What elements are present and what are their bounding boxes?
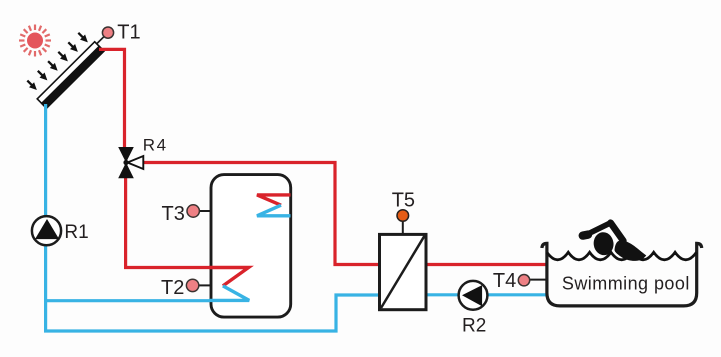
svg-text:R4: R4 bbox=[143, 136, 168, 155]
svg-text:T5: T5 bbox=[392, 190, 415, 212]
valve R4 bbox=[118, 147, 143, 178]
pool water wave line bbox=[547, 252, 697, 259]
wire: tank coil return to pump line bbox=[44, 299, 214, 302]
wire: hot supply collector to valve bbox=[99, 49, 125, 150]
swimming pool tub bbox=[542, 243, 702, 306]
wire: heat exchanger to pool (cold) through R2 bbox=[426, 293, 546, 296]
svg-text:R1: R1 bbox=[64, 222, 88, 243]
wire: valve bottom branch to tank coil bbox=[126, 175, 214, 268]
sensor T5 bbox=[397, 210, 409, 233]
heat exchanger bbox=[380, 234, 427, 309]
wire: heat exchanger to pool (hot) bbox=[426, 263, 546, 266]
sensor T2 bbox=[186, 279, 212, 291]
wire: valve right branch to heat exchanger bbox=[143, 163, 380, 265]
solar collector panel bbox=[37, 41, 105, 109]
svg-text:T4: T4 bbox=[493, 270, 516, 292]
svg-text:T3: T3 bbox=[162, 203, 185, 225]
sensor T1 bbox=[97, 27, 114, 44]
sensor T4 bbox=[518, 275, 547, 286]
wire: collector return (blue) down left side bbox=[46, 104, 379, 331]
pump R2 bbox=[459, 281, 488, 310]
svg-text:T2: T2 bbox=[161, 277, 184, 299]
svg-text:T1: T1 bbox=[117, 21, 140, 43]
svg-text:R2: R2 bbox=[462, 316, 486, 337]
tank top coil bbox=[257, 195, 291, 205]
sun bbox=[19, 25, 51, 57]
sensor T3 bbox=[187, 205, 212, 217]
svg-text:Swimming pool: Swimming pool bbox=[562, 274, 690, 294]
tank bottom coil bbox=[209, 268, 249, 286]
swimmer icon bbox=[583, 223, 647, 261]
tank bbox=[211, 175, 291, 318]
sun ray arrows onto collector bbox=[25, 30, 91, 92]
pump R1 bbox=[32, 216, 61, 245]
